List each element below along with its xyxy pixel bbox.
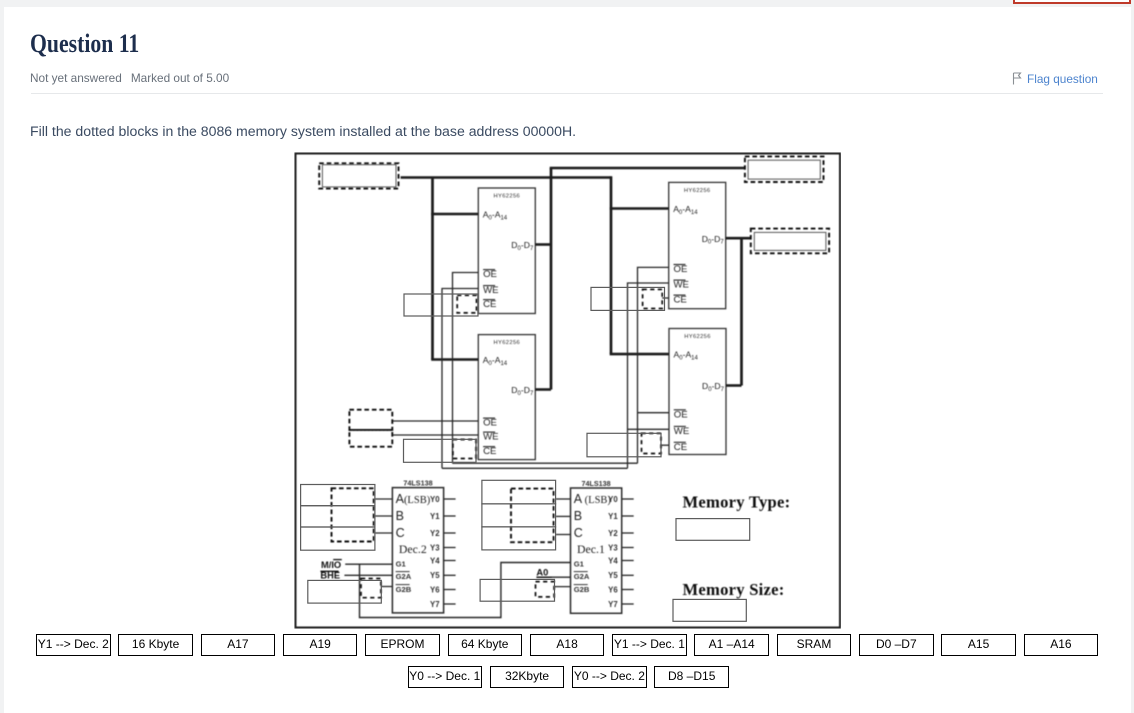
svg-text:OE: OE	[483, 418, 497, 429]
svg-text:A(LSB): A(LSB)	[396, 492, 431, 506]
input field Dec.2 C select	[301, 527, 375, 550]
wire branch to top-left chip A0-A14	[431, 213, 478, 216]
flag question link	[1012, 72, 1098, 86]
decoder 74LS138 Dec.2	[392, 478, 455, 613]
input field Dec.1 C select	[482, 527, 556, 550]
svg-text:G2B: G2B	[396, 585, 412, 594]
svg-text:HY62256: HY62256	[684, 334, 711, 340]
input field top-left chip CE	[404, 294, 478, 316]
dashed blank top-right (data lines)	[745, 156, 824, 182]
svg-text:WE: WE	[483, 285, 498, 296]
svg-text:CE: CE	[674, 295, 687, 306]
wire M/IO to Dec.2 G1 and Dec.1 G1	[345, 563, 570, 618]
question status line	[30, 71, 238, 85]
svg-text:Dec.1: Dec.1	[577, 542, 605, 556]
wire Dec.2 A input	[375, 498, 393, 500]
svg-text:B: B	[574, 509, 582, 523]
svg-text:WE: WE	[674, 280, 689, 291]
svg-text:HY62256: HY62256	[493, 340, 520, 346]
svg-text:OE: OE	[674, 264, 688, 275]
svg-text:CE: CE	[483, 446, 496, 457]
partially visible red-bordered button at top right	[1013, 0, 1131, 4]
svg-text:G2A: G2A	[574, 572, 590, 581]
wire left data bus vertical	[550, 168, 553, 390]
svg-text:Memory Size:: Memory Size:	[683, 580, 785, 599]
svg-text:Y3: Y3	[608, 543, 618, 552]
input field Dec.1 A select	[482, 480, 556, 504]
input field bottom-left chip CE	[404, 439, 477, 462]
decoder 74LS138 Dec.1	[571, 479, 634, 614]
wire Dec.2 G2B blank to pin	[381, 586, 393, 588]
svg-text:Y0: Y0	[430, 495, 440, 504]
svg-text:Memory Type:: Memory Type:	[683, 493, 791, 512]
SRAM chip HY62256 bottom-left	[478, 335, 535, 460]
svg-text:Y3: Y3	[430, 543, 440, 552]
question text	[30, 123, 576, 139]
svg-text:Y4: Y4	[430, 556, 440, 565]
input field bottom-right chip CE	[587, 433, 661, 457]
svg-text:Y6: Y6	[430, 585, 440, 594]
input field memory type	[676, 519, 750, 541]
dashed blank MEMR signal	[349, 410, 392, 430]
svg-text:BHE: BHE	[320, 571, 340, 581]
svg-text:C: C	[574, 526, 583, 540]
svg-text:A0-A14: A0-A14	[483, 355, 508, 367]
question heading	[30, 28, 139, 60]
svg-text:CE: CE	[483, 299, 496, 310]
SRAM chip HY62256 top-right	[669, 182, 726, 308]
svg-text:Y6: Y6	[608, 585, 618, 594]
svg-text:D0-D7: D0-D7	[702, 381, 725, 393]
svg-text:B: B	[396, 509, 404, 523]
dashed blank bottom-left chip CE	[453, 440, 476, 459]
input field Dec.2 B select	[301, 506, 375, 527]
wire top-right chip CE stub	[662, 297, 669, 299]
schematic of the 8086 memory system	[294, 152, 841, 629]
svg-text:A (LSB): A (LSB)	[574, 492, 612, 506]
input field Dec.1 B select	[482, 504, 556, 527]
wire branch to bottom-right chip WE	[628, 428, 670, 430]
svg-text:G2A: G2A	[396, 572, 412, 581]
svg-text:WE: WE	[483, 432, 498, 443]
wire branch to top-right chip A0-A14	[610, 207, 669, 210]
svg-text:A0-A14: A0-A14	[673, 204, 698, 216]
wire Dec.1 B input	[556, 515, 571, 517]
wire BHE to Dec.2 G2A	[344, 574, 392, 576]
wire Dec.1 A input	[556, 498, 571, 500]
draggable answer option boxes	[36, 634, 111, 657]
wire top-right chip WE vertical	[628, 283, 669, 468]
wire address bus horizontal from top-left blank to right column	[401, 176, 611, 179]
svg-text:A0: A0	[536, 568, 548, 578]
wire branch to bottom-left chip A0-A14	[431, 358, 478, 361]
wire A0 to Dec.1 G2A	[537, 576, 571, 578]
dashed blank right (data lines)	[751, 229, 829, 254]
input field Dec.2 G2B enable	[308, 580, 382, 603]
svg-text:Dec.2: Dec.2	[399, 542, 427, 556]
svg-text:Y0: Y0	[608, 495, 618, 504]
wire top-right chip D0-D7 to right blank D0-D7	[726, 237, 751, 240]
dashed blank top-right chip CE	[643, 289, 663, 308]
label BHE with overline	[320, 571, 340, 581]
svg-text:Y4: Y4	[608, 556, 618, 565]
dashed blank Dec.2 select inputs	[332, 488, 374, 541]
svg-text:M/IO: M/IO	[321, 560, 341, 570]
svg-text:Y1: Y1	[430, 512, 440, 521]
wire data bus to top-right blank D8-D15	[550, 167, 745, 170]
wire Dec.1 C input	[556, 534, 571, 536]
svg-text:CE: CE	[674, 442, 687, 453]
svg-text:HY62256: HY62256	[684, 188, 711, 194]
dashed blank Dec.1 G2B enable	[536, 582, 555, 597]
svg-text:D0-D7: D0-D7	[511, 240, 534, 252]
svg-text:Y1: Y1	[608, 512, 618, 521]
label A0 with underline	[536, 568, 551, 578]
input field Dec.2 A select	[301, 485, 375, 506]
svg-text:A0-A14: A0-A14	[674, 350, 699, 362]
svg-text:C: C	[396, 526, 405, 540]
dashed blank Dec.2 G2B enable	[361, 579, 381, 598]
input field top-right chip CE	[591, 287, 665, 310]
schematic outer frame	[296, 154, 841, 628]
dashed blank top-left chip CE	[457, 295, 476, 313]
svg-text:Y2: Y2	[608, 529, 618, 538]
wire Dec.1 G2B blank to pin	[554, 586, 570, 588]
wire bottom-left chip WE to MEMW blank	[392, 434, 478, 436]
wire WE rail bottom	[442, 467, 628, 469]
wire bottom-left chip OE to MEMR blank	[392, 420, 478, 422]
svg-text:Y5: Y5	[608, 571, 618, 580]
wire Dec.2 B input	[375, 515, 393, 517]
wire bottom-right chip D0-D7 to data bus	[726, 384, 742, 387]
wire top-left chip D0-D7 to data bus	[535, 243, 551, 246]
wire bottom-left chip D0-D7 to data bus	[535, 388, 551, 391]
wire left address bus vertical	[431, 178, 434, 360]
svg-text:74LS138: 74LS138	[582, 479, 611, 488]
svg-text:OE: OE	[483, 269, 497, 280]
wire Dec.2 C input	[375, 532, 393, 534]
svg-text:Y7: Y7	[430, 600, 440, 609]
SRAM chip HY62256 top-left	[478, 188, 535, 314]
svg-text:74LS138: 74LS138	[403, 478, 432, 487]
svg-text:G1: G1	[396, 560, 407, 569]
dashed blank bottom-right chip CE	[642, 433, 662, 453]
input field memory size	[673, 599, 746, 621]
dashed blank MEMW signal	[349, 430, 392, 447]
svg-text:Y7: Y7	[608, 600, 618, 609]
wire top-left chip WE down	[442, 289, 478, 469]
dashed blank Dec.1 select inputs	[511, 489, 554, 543]
svg-text:HY62256: HY62256	[493, 194, 520, 200]
wire branch to bottom-right chip OE	[638, 412, 670, 414]
svg-text:G2B: G2B	[574, 585, 590, 594]
svg-text:Y2: Y2	[430, 529, 440, 538]
wire right address bus vertical	[610, 176, 613, 354]
input field Dec.1 G2B enable	[480, 579, 554, 601]
svg-text:Y5: Y5	[430, 571, 440, 580]
wire OE rail bottom	[453, 462, 638, 464]
wire top-right chip OE vertical	[638, 267, 669, 463]
wire branch to bottom-right chip A0-A14	[610, 353, 669, 356]
wire bottom-right chip CE stub	[661, 444, 669, 446]
wire right data bus vertical	[740, 238, 743, 385]
label M/IO with overline	[321, 560, 342, 571]
svg-text:D0-D7: D0-D7	[702, 234, 725, 246]
SRAM chip HY62256 bottom-right	[669, 329, 726, 455]
svg-text:WE: WE	[674, 426, 689, 437]
wire top-left chip OE down	[453, 273, 479, 464]
svg-text:G1: G1	[574, 560, 585, 569]
svg-text:OE: OE	[674, 409, 688, 420]
dashed blank top-left (address lines)	[319, 163, 398, 188]
svg-text:A0-A14: A0-A14	[483, 210, 508, 222]
svg-text:D0-D7: D0-D7	[511, 385, 534, 397]
